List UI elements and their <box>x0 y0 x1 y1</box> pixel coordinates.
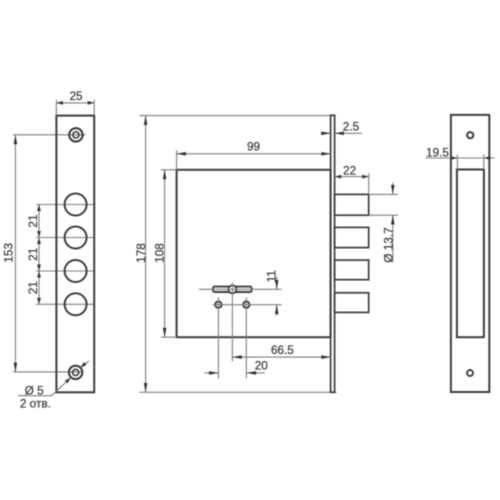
svg-text:21: 21 <box>26 214 40 227</box>
svg-text:21: 21 <box>26 248 40 261</box>
svg-text:20: 20 <box>255 359 269 373</box>
svg-text:22: 22 <box>343 164 356 178</box>
svg-text:19.5: 19.5 <box>426 145 449 159</box>
svg-text:25: 25 <box>69 89 83 103</box>
svg-text:178: 178 <box>134 243 148 263</box>
svg-text:Ø 13.7: Ø 13.7 <box>382 227 396 262</box>
svg-text:11: 11 <box>265 270 279 282</box>
svg-text:99: 99 <box>247 140 260 154</box>
svg-text:2 отв.: 2 отв. <box>20 396 51 410</box>
svg-text:153: 153 <box>2 243 16 263</box>
svg-text:2.5: 2.5 <box>343 120 360 134</box>
svg-text:108: 108 <box>152 243 166 263</box>
svg-text:66.5: 66.5 <box>271 343 294 357</box>
svg-text:21: 21 <box>26 281 40 294</box>
